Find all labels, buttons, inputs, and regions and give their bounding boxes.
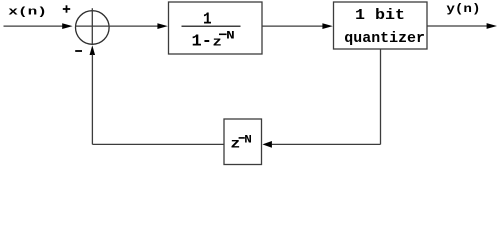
arrowhead feedback into summer bottom bbox=[90, 45, 96, 55]
svg-text:1 bit: 1 bit bbox=[355, 8, 405, 24]
svg-text:1-: 1- bbox=[192, 31, 212, 50]
wire quantizer to output bbox=[427, 25, 488, 27]
block Z1 delay rectangle bbox=[224, 119, 262, 165]
arrowhead into summer (input) bbox=[62, 23, 72, 29]
svg-text:z: z bbox=[213, 34, 222, 49]
arrowhead into integrator bbox=[157, 23, 167, 29]
plus sign at summer input bbox=[63, 5, 70, 12]
wire feedback drop from quantizer bottom bbox=[380, 49, 382, 144]
fraction bar bbox=[182, 25, 241, 27]
arrowhead into quantizer bbox=[322, 23, 332, 29]
block H1 integrator rectangle bbox=[169, 2, 263, 54]
wire integrator to quantizer bbox=[262, 25, 324, 27]
value label exponent minus bar bbox=[239, 137, 245, 139]
arrowhead output bbox=[487, 23, 497, 29]
wire input rail x(n) to summer bbox=[4, 25, 64, 27]
svg-text:quantizer: quantizer bbox=[344, 31, 425, 47]
wire feedback rise to summer bbox=[91, 55, 93, 145]
svg-text:N: N bbox=[244, 134, 252, 146]
svg-text:x(n): x(n) bbox=[8, 6, 47, 18]
svg-text:1: 1 bbox=[203, 9, 212, 28]
value label denominator exponent minus bar bbox=[219, 33, 227, 35]
wire horizontal crosshair through summer bbox=[76, 25, 109, 27]
arrowhead into delay block bbox=[262, 141, 272, 148]
svg-text:y(n): y(n) bbox=[446, 2, 480, 16]
summing junction U1 circle bbox=[76, 11, 110, 45]
block U2 quantizer rectangle bbox=[334, 2, 428, 49]
wire feedback horizontal left segment bbox=[92, 143, 224, 145]
wire summer to integrator block bbox=[109, 25, 159, 27]
wire feedback horizontal right segment bbox=[272, 143, 381, 145]
minus sign at summer feedback input bbox=[75, 50, 82, 52]
svg-text:z: z bbox=[230, 137, 240, 153]
svg-text:N: N bbox=[226, 31, 235, 43]
wire vertical crosshair through summer bbox=[91, 8, 93, 44]
